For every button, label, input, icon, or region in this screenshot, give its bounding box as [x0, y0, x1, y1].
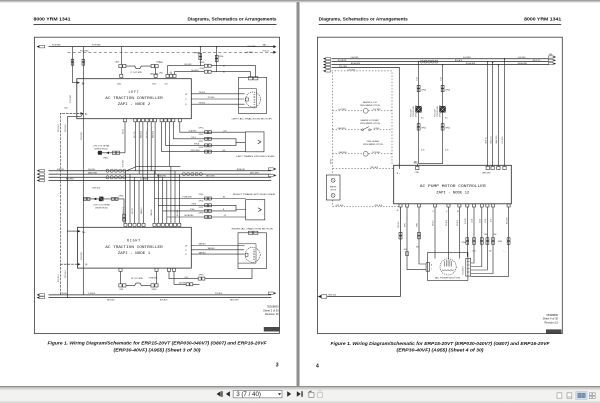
svg-text:-70A6 RED-: -70A6 RED- [337, 127, 347, 130]
svg-text:HEATER & COIL: HEATER & COIL [363, 101, 377, 104]
svg-text:B +: B + [397, 173, 401, 175]
svg-text:V: V [446, 211, 448, 213]
svg-text:10 A RED: 10 A RED [189, 129, 197, 132]
svg-text:CPR06: CPR06 [421, 89, 426, 91]
button previous view [308, 390, 314, 397]
svg-text:WITH WATER OPTION: WITH WATER OPTION [360, 104, 380, 107]
svg-text:B0A2 GRN: B0A2 GRN [495, 135, 498, 144]
svg-text:B0L GRN: B0L GRN [506, 218, 508, 224]
svg-text:B0A BLN: B0A BLN [140, 130, 143, 138]
wire encoder harness 2 P7A4 (left page) [163, 207, 236, 213]
svg-text:A-2: A-2 [421, 117, 424, 120]
part number tag (left page) [264, 327, 279, 331]
caption figure 1 sheet 3 (left page) [48, 341, 268, 353]
svg-text:ZAPI - NODE 12: ZAPI - NODE 12 [436, 190, 469, 194]
frame border (left page schematic) [34, 37, 279, 333]
svg-text:RIGHT AC TRACTION MOTOR: RIGHT AC TRACTION MOTOR [232, 228, 274, 231]
svg-text:HEATER: HEATER [330, 186, 337, 189]
button continuous facing view [589, 393, 595, 399]
svg-text:BRN: BRN [405, 223, 407, 227]
wire pump sensor 4 (right page) [471, 207, 489, 270]
svg-text:Sheet 3 of 30: Sheet 3 of 30 [263, 308, 279, 312]
svg-text:+0.B RED: +0.B RED [245, 52, 254, 54]
svg-text:CPR18: CPR18 [199, 147, 204, 149]
svg-text:POS RED: POS RED [92, 45, 101, 47]
svg-text:W: W [457, 211, 459, 213]
inductor BT CLSE BRN row (left page) [119, 272, 158, 291]
page number 4 (right page) [316, 363, 319, 369]
wire pump phase W (right page) [457, 207, 460, 259]
svg-text:-7P6L BLK-: -7P6L BLK- [374, 205, 383, 207]
svg-text:BAT +: BAT + [263, 44, 268, 47]
svg-text:SEL BLN: SEL BLN [147, 130, 149, 138]
svg-text:Figure 1. Wiring Diagram/Schem: Figure 1. Wiring Diagram/Schematic for E… [48, 341, 268, 346]
svg-text:P2GA GRN: P2GA GRN [149, 276, 158, 279]
svg-text:BLU A YL: BLU A YL [455, 59, 463, 62]
wire encoder harness 1 +12V (left page) [180, 122, 246, 134]
svg-text:AC TRACTION CONTROLLER: AC TRACTION CONTROLLER [105, 245, 163, 249]
svg-text:Y0A RED: Y0A RED [150, 208, 153, 216]
wire drops mid bus to controller U1 pins cluster A (left page) [123, 171, 143, 224]
wire pump phase V (right page) [446, 207, 448, 260]
svg-text:CR04: CR04 [159, 73, 163, 75]
svg-text:B1N BLU: B1N BLU [58, 274, 60, 282]
svg-text:V: V [185, 250, 187, 252]
wire temp sensor motor2 A (left page) [169, 269, 252, 281]
svg-text:NEG BLK: NEG BLK [65, 123, 67, 132]
svg-text:B7L4: B7L4 [192, 137, 196, 139]
svg-text:ZAPI - NODE 1: ZAPI - NODE 1 [118, 251, 151, 255]
svg-text:SPDA: SPDA [194, 143, 200, 146]
svg-text:Revision 15: Revision 15 [544, 320, 558, 324]
wire pump motor aux 1 (right page) [404, 207, 426, 270]
svg-text:B0A BLN: B0A BLN [152, 130, 155, 138]
svg-text:POS RED: POS RED [52, 45, 61, 47]
svg-text:CR05: CR05 [152, 84, 156, 86]
svg-text:WITH WATER OPTION: WITH WATER OPTION [360, 122, 380, 125]
terminals on controller U2 top edge (left page) [117, 74, 176, 85]
wire pump sensor 5 (right page) [471, 207, 495, 274]
svg-text:B0CA RED: B0CA RED [185, 214, 195, 217]
svg-text:B1: B1 [223, 72, 225, 74]
svg-text:CPR06: CPR06 [219, 56, 224, 58]
wire bottom bus line 1 NEG BLK (left page) [37, 292, 277, 296]
svg-text:B1N BLK: B1N BLK [160, 299, 168, 301]
button previous page [226, 391, 230, 397]
svg-text:0.64 RED: 0.64 RED [518, 57, 526, 59]
wire dashed option rail (right page) [330, 72, 332, 207]
svg-text:GB/4: GB/4 [414, 162, 418, 164]
wire top bus 2 POS RED dashed (left page) [68, 50, 277, 54]
svg-text:4: 4 [316, 363, 319, 369]
wire drop B0A2 GRN (right page) [495, 64, 499, 166]
svg-text:NEG BLK: NEG BLK [58, 123, 60, 132]
connector pump motor left (right page) [426, 263, 432, 272]
labels pump sensor wires rotated (right page) [465, 218, 508, 224]
svg-text:B+: B+ [82, 82, 86, 85]
svg-text:-70T6 RED-: -70T6 RED- [372, 152, 381, 154]
wire stubs controller top pins (left page) [159, 62, 171, 75]
svg-text:CPR15: CPR15 [199, 194, 204, 196]
svg-text:0.67 RED: 0.67 RED [502, 136, 504, 144]
svg-text:TM BLK: TM BLK [457, 219, 459, 226]
wire motor2 phase U (left page) [185, 243, 244, 248]
svg-text:TAB BLK: TAB BLK [208, 247, 216, 250]
svg-text:Sheet 4 of 30: Sheet 4 of 30 [543, 317, 559, 321]
heater coil K1 WITH WATER OPTION (right page) [333, 101, 393, 113]
svg-text:05308800: 05308800 [267, 305, 279, 309]
svg-text:HEATER & CONTACT: HEATER & CONTACT [361, 119, 381, 122]
wire bus L5 0.67 RED dashed (right page) [323, 69, 392, 165]
encoder ENC1 LEFT TRANS SPD ENCODER (left page) [236, 132, 275, 158]
svg-text:SA 4 BRN: SA 4 BRN [191, 69, 199, 72]
svg-text:P7A4: P7A4 [190, 208, 194, 211]
wire motor phase W (left page) [185, 102, 244, 106]
svg-text:FUEL GE AMP: FUEL GE AMP [367, 140, 380, 143]
wire drop YEL BRN YL (right page) [485, 61, 488, 166]
svg-text:B-: B- [85, 113, 88, 116]
svg-text:A: A [431, 264, 432, 267]
heater contact S1 WITH WATER OPTION (right page) [333, 119, 393, 131]
motor M2 LEFT AC TRACTION MOTOR (left page) [232, 78, 273, 121]
svg-text:DRIVER TRUCK: DRIVER TRUCK [440, 104, 442, 117]
svg-text:70RG BLK: 70RG BLK [370, 167, 379, 169]
button last page [297, 391, 303, 397]
svg-text:B1N RED: B1N RED [123, 159, 125, 167]
svg-text:CPR5 CPR3: CPR5 CPR3 [482, 173, 491, 175]
svg-text:WITH WATER OPTION: WITH WATER OPTION [363, 143, 383, 146]
wire mid bus line 4 B1N RED (left page) [37, 178, 272, 182]
wire pump motor aux 2 (right page) [416, 207, 426, 264]
svg-text:0.5A RED: 0.5A RED [140, 178, 149, 181]
svg-text:U: U [185, 254, 187, 256]
wire tap CPR08 to temp A (left page) [194, 46, 202, 66]
encoder ENC2 RIGHT TRANS SPD ENCODER (left page) [233, 193, 276, 220]
header left page [34, 17, 277, 25]
svg-text:TM BLK: TM BLK [446, 219, 448, 226]
wire top bus POS RED (left page) [37, 44, 277, 49]
svg-text:LT CLST BRN: LT CLST BRN [130, 72, 142, 74]
svg-text:TK1 BLK: TK1 BLK [208, 97, 216, 99]
wire drop B05 BL YL (right page) [490, 62, 493, 167]
connector temp sensor on motor M2 (left page) [249, 77, 258, 80]
wire contactor branch merge (right page) [414, 162, 443, 167]
svg-text:P1N BLK: P1N BLK [215, 293, 223, 295]
header right page [319, 17, 562, 25]
wire drops controller U2 to mid bus (left page) [123, 122, 170, 181]
terminals controller U1 bottom edge (left page) [119, 268, 176, 271]
svg-text:DRIVER TRUCK: DRIVER TRUCK [416, 104, 418, 117]
wire mid bus line 1 50A YEL (left page) [37, 168, 277, 172]
svg-text:B05A YEL: B05A YEL [237, 168, 245, 171]
wire rail B+ feed (left page) [70, 47, 80, 103]
svg-text:8000 YRM 1341: 8000 YRM 1341 [524, 17, 561, 23]
svg-text:NEG BLK: NEG BLK [65, 269, 67, 278]
svg-text:Revision 15: Revision 15 [265, 312, 279, 316]
inductor dip LT CLST BRN (left page) [126, 66, 151, 74]
svg-text:Figure 1. Wiring Diagram/Schem: Figure 1. Wiring Diagram/Schematic for E… [331, 341, 551, 346]
svg-text:POS RED: POS RED [70, 94, 72, 103]
svg-text:3 (7 / 40): 3 (7 / 40) [236, 391, 261, 398]
wire bus L2 BLU A YEL (right page) [323, 59, 556, 63]
wire encoder harness 1 SPDA (left page) [166, 122, 237, 147]
svg-text:A-2: A-2 [445, 117, 448, 120]
svg-text:OPTION: OPTION [330, 190, 337, 192]
svg-text:B0GA GRN: B0GA GRN [466, 62, 476, 65]
svg-text:NEG GRN: NEG GRN [230, 299, 239, 301]
wire heater option feed dashed (right page) [333, 167, 394, 169]
svg-text:0.64 RED: 0.64 RED [463, 57, 471, 59]
wire encoder harness 2 P2GA GRN (left page) [155, 194, 246, 200]
svg-text:(M): (M) [223, 150, 226, 152]
svg-text:CPR15: CPR15 [199, 128, 204, 130]
wire bus jog diagonal (left page) [92, 166, 180, 189]
svg-text:TK BLK: TK BLK [433, 219, 435, 226]
svg-text:B+: B+ [82, 231, 86, 234]
svg-text:57GB: 57GB [485, 219, 487, 223]
svg-text:CPR16: CPR16 [199, 134, 204, 136]
svg-text:CPR17: CPR17 [199, 207, 204, 209]
svg-text:SEL YEL: SEL YEL [132, 208, 134, 214]
svg-text:CPR06: CPR06 [498, 241, 503, 243]
svg-text:POS RED: POS RED [80, 50, 89, 52]
terminals controller U3 top edge (right page) [414, 162, 507, 174]
svg-text:BLU A YEL: BLU A YEL [338, 59, 347, 62]
svg-text:MAIN GRN: MAIN GRN [88, 171, 98, 174]
svg-text:LEFT: LEFT [128, 90, 139, 94]
svg-text:U: U [433, 211, 435, 213]
wire temp sensor A to motor M2 (left page) [168, 62, 256, 77]
svg-text:TAB BLK: TAB BLK [199, 251, 207, 254]
svg-text:POS RED: POS RED [248, 46, 257, 48]
revision block sheet 4 (right page) [543, 313, 559, 325]
svg-text:B05: B05 [416, 247, 419, 249]
svg-text:+ -: + - [504, 250, 506, 252]
wire motor2 phase V (left page) [185, 247, 244, 252]
svg-text:-70A6 RED-: -70A6 RED- [338, 151, 348, 154]
button first page [217, 391, 223, 397]
svg-text:CR08: CR08 [115, 62, 119, 64]
svg-text:AC PUMP MOTOR CONTROLLER: AC PUMP MOTOR CONTROLLER [420, 184, 486, 188]
svg-text:POS 15: POS 15 [263, 50, 269, 52]
svg-text:CPR06: CPR06 [462, 242, 467, 244]
wire mid bus line 3 B05A GRN (left page) [37, 174, 277, 179]
wire motor phase U (left page) [185, 92, 244, 96]
wire bus L1 0.64 RED (right page) [323, 53, 556, 60]
svg-text:AC PUMP MOTOR: AC PUMP MOTOR [435, 277, 461, 280]
svg-text:Diagrams, Schematics or Arrang: Diagrams, Schematics or Arrangements [319, 17, 408, 22]
motor M1 RIGHT AC TRACTION MOTOR (left page) [232, 228, 274, 269]
svg-text:DRIVER TRUCK: DRIVER TRUCK [95, 208, 109, 210]
svg-text:7P6L RED: 7P6L RED [339, 66, 348, 68]
svg-text:B05 BL YL: B05 BL YL [490, 136, 492, 144]
labels pump sensor harness (right page) [462, 234, 506, 252]
svg-text:B0L4 YLL: B0L4 YLL [533, 60, 541, 62]
fuel gauge amp G1 WITH WATER OPTION (right page) [333, 140, 393, 156]
svg-text:(0.64 YL): (0.64 YL) [485, 137, 487, 144]
svg-text:NEG GRN: NEG GRN [206, 176, 215, 178]
svg-text:W: W [185, 94, 187, 96]
svg-text:B0A BLN: B0A BLN [140, 207, 143, 214]
svg-text:NEG GRN: NEG GRN [250, 172, 259, 174]
svg-text:LEFT AC TRACTION MOTOR: LEFT AC TRACTION MOTOR [232, 117, 273, 120]
svg-text:LEFT TRANS SPD ENCODER: LEFT TRANS SPD ENCODER [236, 155, 275, 158]
svg-text:B1N RED: B1N RED [66, 179, 74, 181]
svg-text:(ERP30-40VF) (A955) (Sheet 3 o: (ERP30-40VF) (A955) (Sheet 3 of 30) [114, 347, 202, 352]
svg-text:0.5 GRN: 0.5 GRN [177, 209, 179, 216]
connector cluster CONT COOL HE FAN lower (left page) [83, 195, 125, 223]
svg-text:B0GA GRN: B0GA GRN [518, 62, 528, 65]
svg-text:CONT COOL HE FAN: CONT COOL HE FAN [93, 204, 110, 207]
svg-text:B6: B6 [223, 197, 225, 199]
svg-text:U: U [185, 104, 187, 106]
svg-text:CPR17: CPR17 [199, 141, 204, 143]
svg-text:8000 YRM 1341: 8000 YRM 1341 [34, 17, 71, 23]
terminals on controller U2 bottom edge (left page) [123, 119, 181, 122]
svg-text:-8 RED-: -8 RED- [374, 128, 381, 130]
svg-text:CPR4: CPR4 [415, 172, 419, 174]
svg-text:(ERP30-40VF) (A955) (Sheet 4 o: (ERP30-40VF) (A955) (Sheet 4 of 30) [397, 348, 485, 353]
wire pump phase U (right page) [433, 207, 435, 259]
svg-text:RIGHT TRANS SPD ENCODER: RIGHT TRANS SPD ENCODER [233, 193, 276, 196]
wire pump sensor 6 (right page) [471, 207, 510, 276]
svg-text:ENCODER: ENCODER [462, 266, 464, 275]
svg-text:B-10: B-10 [445, 150, 448, 152]
wire drops mid bus to controller U1 pins cluster B (left page) [150, 166, 180, 223]
wire bus L3 B0GA GRN (right page) [323, 62, 556, 66]
svg-text:CPR04: CPR04 [103, 157, 108, 159]
svg-text:B1: B1 [223, 66, 225, 68]
wire B- stub controller U1 (left page) [60, 263, 80, 265]
svg-text:B05 GRN: B05 GRN [185, 64, 193, 66]
svg-text:50 A YEL: 50 A YEL [88, 168, 95, 171]
svg-text:CR1: CR1 [165, 84, 168, 86]
svg-text:BLU YEL: BLU YEL [465, 218, 467, 224]
svg-text:CPR06: CPR06 [119, 195, 124, 197]
wire tap CPR06 to temp B (left page) [215, 46, 223, 72]
svg-text:-0.67 RED-: -0.67 RED- [338, 109, 347, 111]
wire temp sensor motor2 B (left page) [174, 272, 200, 286]
svg-text:BT CLST BRN: BT CLST BRN [131, 278, 143, 280]
svg-text:NEG BLK: NEG BLK [92, 187, 101, 189]
svg-text:B-10: B-10 [421, 150, 424, 152]
svg-text:CPR09: CPR09 [200, 68, 205, 70]
svg-text:27GB: 27GB [480, 219, 482, 223]
svg-text:0.5A: 0.5A [415, 77, 418, 80]
svg-text:17B6: 17B6 [493, 234, 497, 236]
svg-text:ZAPI - NODE 2: ZAPI - NODE 2 [118, 102, 151, 106]
wire mid bus line 2 MAIN GRN (left page) [37, 171, 272, 175]
svg-text:NEG 1: NEG 1 [123, 129, 125, 134]
svg-text:P2GA GRN: P2GA GRN [183, 196, 193, 199]
wire rail NEG 2 (left page) [65, 108, 84, 298]
svg-text:CR04: CR04 [119, 289, 123, 291]
svg-text:SEL YEL: SEL YEL [134, 131, 136, 138]
svg-text:B-: B- [397, 210, 399, 212]
part number tag (right page) [546, 330, 561, 334]
svg-text:PVS CONT: PVS CONT [435, 109, 437, 117]
svg-text:TW BLK: TW BLK [199, 102, 206, 104]
wire encoder harness 2 GP18 (left page) [159, 201, 246, 210]
button next view (disabled) [317, 391, 322, 398]
wire heater return dashed 7P6L BLK (right page) [333, 205, 399, 207]
wire drop 0.67 RED right (right page) [502, 58, 505, 166]
svg-text:TAB BLK: TAB BLK [199, 243, 207, 246]
svg-text:0.5A: 0.5A [439, 77, 442, 80]
svg-text:CPR06: CPR06 [445, 89, 450, 91]
page number field 3 (7 / 40) [233, 390, 282, 398]
connector CR08 left (left page) [115, 47, 126, 74]
contactor branch 2 PVS CONT COOLING FAN (right page) [435, 64, 451, 164]
svg-text:1 12V: 1 12V [472, 250, 476, 252]
svg-text:5 IN BLK: 5 IN BLK [88, 293, 96, 295]
svg-text:17B6: 17B6 [484, 234, 488, 236]
svg-text:20L9: 20L9 [185, 277, 189, 279]
svg-text:PVS CONT: PVS CONT [411, 109, 413, 117]
terminals controller U3 bottom edge (right page) [397, 204, 510, 212]
svg-text:B7G: B7G [491, 218, 493, 222]
svg-text:0.5N BLK: 0.5N BLK [60, 293, 68, 295]
svg-text:NEG BLK: NEG BLK [328, 295, 337, 297]
wire encoder harness 1 SS12 GRN (left page) [162, 122, 246, 153]
svg-text:NEG BLK: NEG BLK [107, 299, 116, 301]
contactor branch 1 PVS CONT COOLING FAN (right page) [411, 61, 427, 164]
svg-text:Diagrams, Schematics or Arrang: Diagrams, Schematics or Arrangements [188, 17, 277, 22]
controller U1 RIGHT AC TRACTION CONTROLLER ZAPI NODE 1 (left page) [78, 227, 192, 268]
wire B+ stub controller U1 (left page) [67, 230, 80, 232]
wire encoder harness 1 B7L4 (left page) [173, 122, 245, 143]
svg-text:BAT +: BAT + [549, 53, 554, 56]
connector CABL BRN right (left page) [150, 61, 160, 75]
svg-text:V: V [185, 99, 187, 101]
svg-text:B0A YEL: B0A YEL [57, 168, 64, 171]
wire motor2 phase W (left page) [185, 251, 244, 256]
wire pump sensor 2 (right page) [471, 207, 476, 263]
wire bottom bus line 2 NEG GRN (left page) [37, 296, 272, 301]
wire rail NEG dashed (left page) [58, 112, 83, 295]
svg-text:RIGHT: RIGHT [127, 239, 141, 243]
svg-text:M10: M10 [65, 108, 68, 110]
terminals on controller U1 top edge (left page) [124, 223, 181, 226]
svg-text:B-: B- [86, 263, 89, 266]
wire pump sensor 1 (right page) [466, 207, 469, 257]
svg-text:POS RED: POS RED [81, 251, 83, 260]
svg-text:CPR06: CPR06 [421, 128, 426, 130]
page number 3 (left page) [276, 362, 279, 368]
svg-text:SS12 GRN: SS12 GRN [191, 150, 201, 152]
svg-text:B0 RED: B0 RED [330, 158, 332, 164]
wire B- NEG BLK to BAT- (right page) [318, 207, 402, 298]
svg-text:TW BLK: TW BLK [199, 92, 206, 94]
svg-text:27GB: 27GB [472, 219, 474, 223]
svg-text:CPR06: CPR06 [445, 128, 450, 130]
svg-text:CR04: CR04 [159, 62, 163, 64]
svg-text:05308800: 05308800 [546, 313, 558, 317]
wire rail POS long (left page) [81, 47, 85, 295]
svg-text:GP18: GP18 [192, 204, 197, 206]
button single page view [557, 393, 562, 398]
button next page [287, 391, 291, 397]
svg-text:CPR18: CPR18 [199, 213, 204, 215]
svg-text:POS RED: POS RED [81, 131, 83, 140]
wire pump sensor 3 (right page) [471, 207, 483, 267]
controller U3 AC PUMP MOTOR CONTROLLER ZAPI NODE 12 (right page) [394, 165, 512, 204]
svg-text:-7P6L BLK-: -7P6L BLK- [335, 205, 344, 207]
svg-text:AC TRACTION CONTROLLER: AC TRACTION CONTROLLER [105, 96, 163, 100]
revision block sheet 3 (left page) [263, 305, 279, 317]
svg-text:W: W [185, 246, 187, 248]
button continuous view [567, 393, 572, 398]
